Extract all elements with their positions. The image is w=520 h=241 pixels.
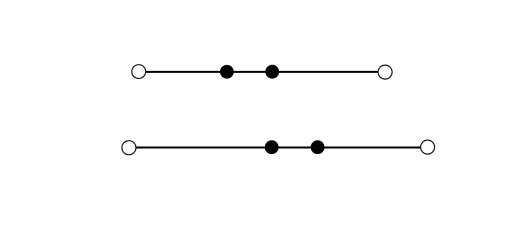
node: bottom interior filled point 2 xyxy=(311,140,325,154)
wire: bottom segment xyxy=(129,147,428,149)
node: top interior filled point 2 xyxy=(265,65,279,79)
node: top interior filled point 1 xyxy=(220,65,234,79)
wire: top segment xyxy=(139,71,385,73)
node: bottom interior filled point 1 xyxy=(265,140,279,154)
node: bottom-right open endpoint xyxy=(421,140,435,154)
node: top-right open endpoint xyxy=(378,65,392,79)
node: bottom-left open endpoint xyxy=(122,141,136,155)
node: top-left open endpoint xyxy=(132,65,146,79)
